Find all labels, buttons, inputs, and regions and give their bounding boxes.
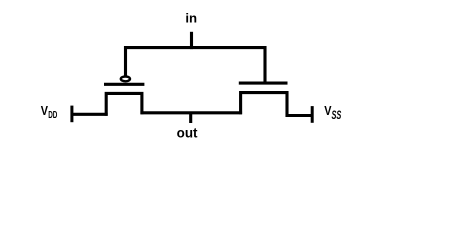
svg-text:V: V	[41, 103, 48, 118]
svg-text:in: in	[185, 10, 197, 25]
wire: Q2 source to VSS terminal	[286, 114, 313, 117]
svg-text:SS: SS	[332, 110, 342, 123]
svg-text:DD: DD	[48, 109, 57, 121]
label V_DD	[41, 103, 58, 121]
wire: VDD terminal to Q1 source	[72, 113, 108, 116]
pmos Q1 channel (source-drain)	[106, 93, 142, 115]
nmos Q2 channel (drain-source)	[241, 93, 287, 117]
wire: out stub	[189, 113, 192, 123]
nmos Q2 gate plate	[239, 82, 288, 85]
pmos Q1 gate plate	[104, 83, 144, 86]
svg-text:V: V	[324, 103, 331, 118]
VSS terminal tick	[311, 106, 314, 123]
wire: input rail with drops to PMOS gate bubble and NMOS gate	[126, 48, 266, 83]
wire: in stub from label to input rail	[190, 32, 193, 49]
svg-text:out: out	[177, 126, 198, 141]
VDD terminal tick	[70, 106, 73, 123]
label V_SS	[324, 103, 341, 123]
wire: out rail from Q1 drain to Q2 drain	[140, 111, 242, 114]
pmos Q1 gate bubble	[121, 77, 130, 82]
